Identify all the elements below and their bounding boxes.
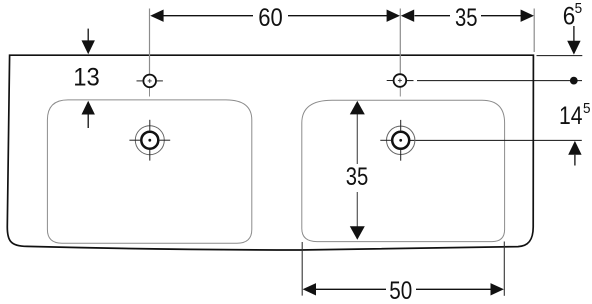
right tap hole [394,74,407,87]
dimension 35 vertical top arrow [350,101,365,115]
dimension 14.5 arrow [568,141,581,155]
svg-text:13: 13 [73,63,100,91]
extension line right edge [533,9,535,53]
left drain hole [135,126,164,155]
dimension 35 vertical line [356,114,358,164]
dimension 50 extension lines [301,242,303,296]
dimension 60 line [162,15,253,17]
svg-text:35: 35 [455,4,478,32]
right drain hole [387,126,415,154]
svg-text:60: 60 [258,4,283,32]
left tap hole [143,75,156,88]
dimension 60 left arrow [150,10,163,22]
dimension 35 left arrow [401,10,414,22]
drain reference line [410,139,582,141]
dimension 50 left arrow [303,283,316,295]
tap hole reference line [407,80,414,82]
dimension 13 lower arrow [82,101,95,115]
svg-text:50: 50 [389,277,412,304]
top edge reference line [537,55,583,57]
ceramic outline [7,55,533,250]
dimension 60 right arrow [387,10,400,22]
svg-text:5: 5 [583,100,591,117]
extension line right tap hole [399,9,401,75]
dimension 50 right arrow [491,283,504,295]
shared dimension dot [570,77,578,85]
right basin [302,100,505,241]
svg-text:5: 5 [575,0,583,17]
svg-text:14: 14 [559,102,583,130]
dimension 50 line [316,288,386,290]
left basin [47,100,251,243]
dimension 35 top line [415,15,451,17]
dimension 6.5 arrow [573,26,575,41]
dimension 35 vertical bottom arrow [350,226,365,240]
dimension 13 upper arrow [87,29,89,41]
extension line left tap hole [149,9,151,75]
dimension 35 right arrow [521,10,534,22]
svg-text:35: 35 [346,163,369,191]
